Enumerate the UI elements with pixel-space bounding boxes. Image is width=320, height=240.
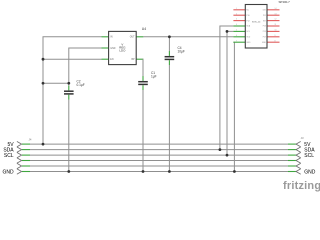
svg-text:14: 14 [275, 8, 277, 10]
svg-text:10µF: 10µF [178, 50, 185, 54]
svg-text:GND: GND [2, 169, 14, 175]
svg-text:J3: J3 [301, 136, 304, 140]
svg-text:J4: J4 [29, 138, 32, 142]
svg-text:P17: P17 [263, 37, 266, 39]
svg-text:2: 2 [236, 13, 237, 15]
svg-text:8: 8 [275, 40, 276, 42]
svg-text:3: 3 [236, 19, 237, 21]
svg-text:5: 5 [236, 30, 237, 32]
svg-text:4: 4 [236, 24, 237, 26]
svg-text:GND: GND [110, 48, 115, 50]
svg-text:LDO: LDO [119, 49, 126, 53]
svg-text:SCL: SCL [4, 153, 14, 159]
svg-text:7: 7 [236, 40, 237, 42]
svg-text:EN: EN [110, 59, 114, 61]
svg-text:GND: GND [304, 169, 316, 175]
svg-text:OUT: OUT [130, 37, 135, 39]
svg-text:SCL: SCL [304, 153, 314, 159]
svg-text:GND: GND [246, 42, 251, 44]
svg-text:IN: IN [110, 37, 113, 39]
svg-text:12: 12 [275, 19, 277, 21]
svg-text:P13: P13 [263, 26, 266, 28]
svg-text:1: 1 [236, 8, 237, 10]
svg-text:SOIC-14: SOIC-14 [252, 22, 261, 24]
svg-text:1µF: 1µF [151, 75, 157, 79]
svg-text:10: 10 [275, 30, 277, 32]
svg-text:P11: P11 [263, 15, 266, 17]
svg-text:11: 11 [275, 24, 277, 26]
svg-text:13: 13 [275, 13, 277, 15]
svg-text:U4: U4 [142, 27, 146, 31]
svg-text:SCL: SCL [246, 31, 250, 33]
svg-text:P10: P10 [246, 15, 249, 17]
svg-text:BP: BP [132, 59, 136, 61]
svg-text:6: 6 [236, 35, 237, 37]
svg-text:SP300-7: SP300-7 [279, 0, 291, 4]
svg-text:P15: P15 [263, 31, 266, 33]
svg-text:GND: GND [262, 42, 267, 44]
svg-text:P12: P12 [246, 20, 249, 22]
svg-text:fritzing: fritzing [283, 180, 320, 192]
svg-text:9: 9 [275, 35, 276, 37]
svg-text:0.1µF: 0.1µF [77, 83, 85, 87]
